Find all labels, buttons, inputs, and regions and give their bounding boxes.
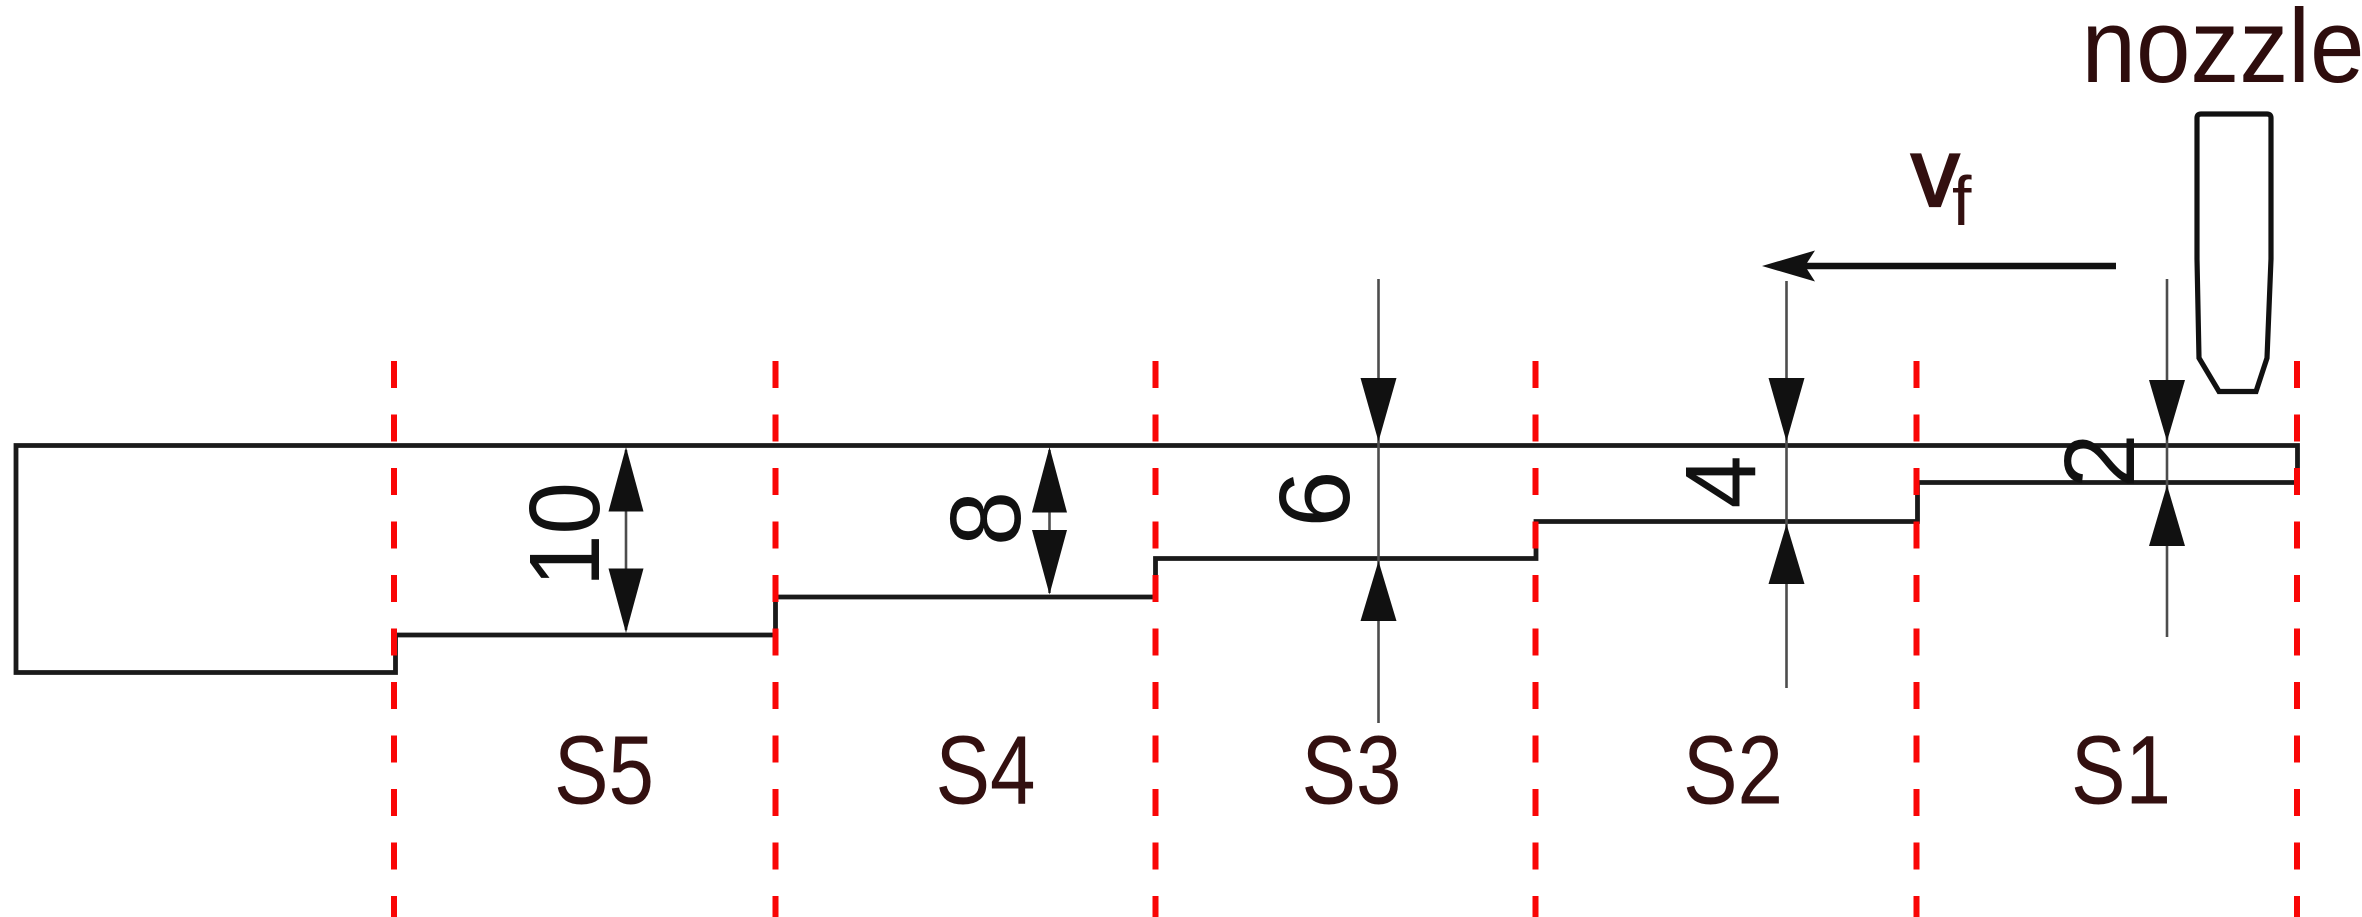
svg-text:4: 4: [1665, 456, 1777, 509]
dimension S5 bottom arrowhead: [609, 569, 644, 634]
section boundary dashed line 2: [773, 361, 779, 917]
dimension S4 extension shaft: [1048, 450, 1051, 593]
svg-text:10: 10: [509, 482, 621, 587]
dimension S3 extension line: [1377, 279, 1380, 723]
section boundary dashed line 5: [1914, 361, 1920, 917]
dimension S2 extension line: [1785, 281, 1788, 688]
svg-text:S3: S3: [1302, 716, 1402, 825]
svg-text:f: f: [1952, 162, 1972, 240]
nozzle body outline: [2197, 114, 2271, 392]
svg-text:S4: S4: [936, 716, 1036, 825]
svg-text:nozzle: nozzle: [2082, 0, 2362, 105]
section boundary dashed line 3: [1153, 361, 1159, 917]
dimension S4 bottom arrowhead: [1032, 530, 1067, 595]
dimension S5 extension shaft: [625, 450, 628, 630]
dimension S4 top arrowhead: [1032, 447, 1067, 513]
dimension S5 top arrowhead: [609, 447, 644, 512]
workpiece stepped profile outline: [16, 446, 2298, 673]
svg-text:8: 8: [930, 491, 1042, 546]
svg-text:S2: S2: [1683, 716, 1783, 825]
dimension S2 top arrowhead: [1769, 378, 1805, 442]
dimension S3 top arrowhead: [1361, 378, 1397, 442]
svg-text:S5: S5: [554, 716, 654, 825]
feed velocity arrowhead: [1762, 251, 1815, 282]
dimension S1 extension line: [2166, 279, 2169, 637]
svg-text:S1: S1: [2071, 716, 2171, 825]
feed velocity arrow shaft: [1805, 263, 2116, 270]
dimension S1 top arrowhead: [2149, 380, 2185, 442]
section boundary dashed line 1: [391, 361, 397, 917]
dimension S1 bottom arrowhead: [2149, 485, 2185, 546]
dimension S3 bottom arrowhead: [1361, 561, 1397, 621]
section boundary dashed line 4: [1533, 361, 1539, 917]
section boundary dashed line 6: [2294, 361, 2300, 917]
dimension S2 bottom arrowhead: [1769, 524, 1805, 584]
svg-text:6: 6: [1259, 471, 1371, 528]
svg-text:2: 2: [2044, 434, 2156, 489]
